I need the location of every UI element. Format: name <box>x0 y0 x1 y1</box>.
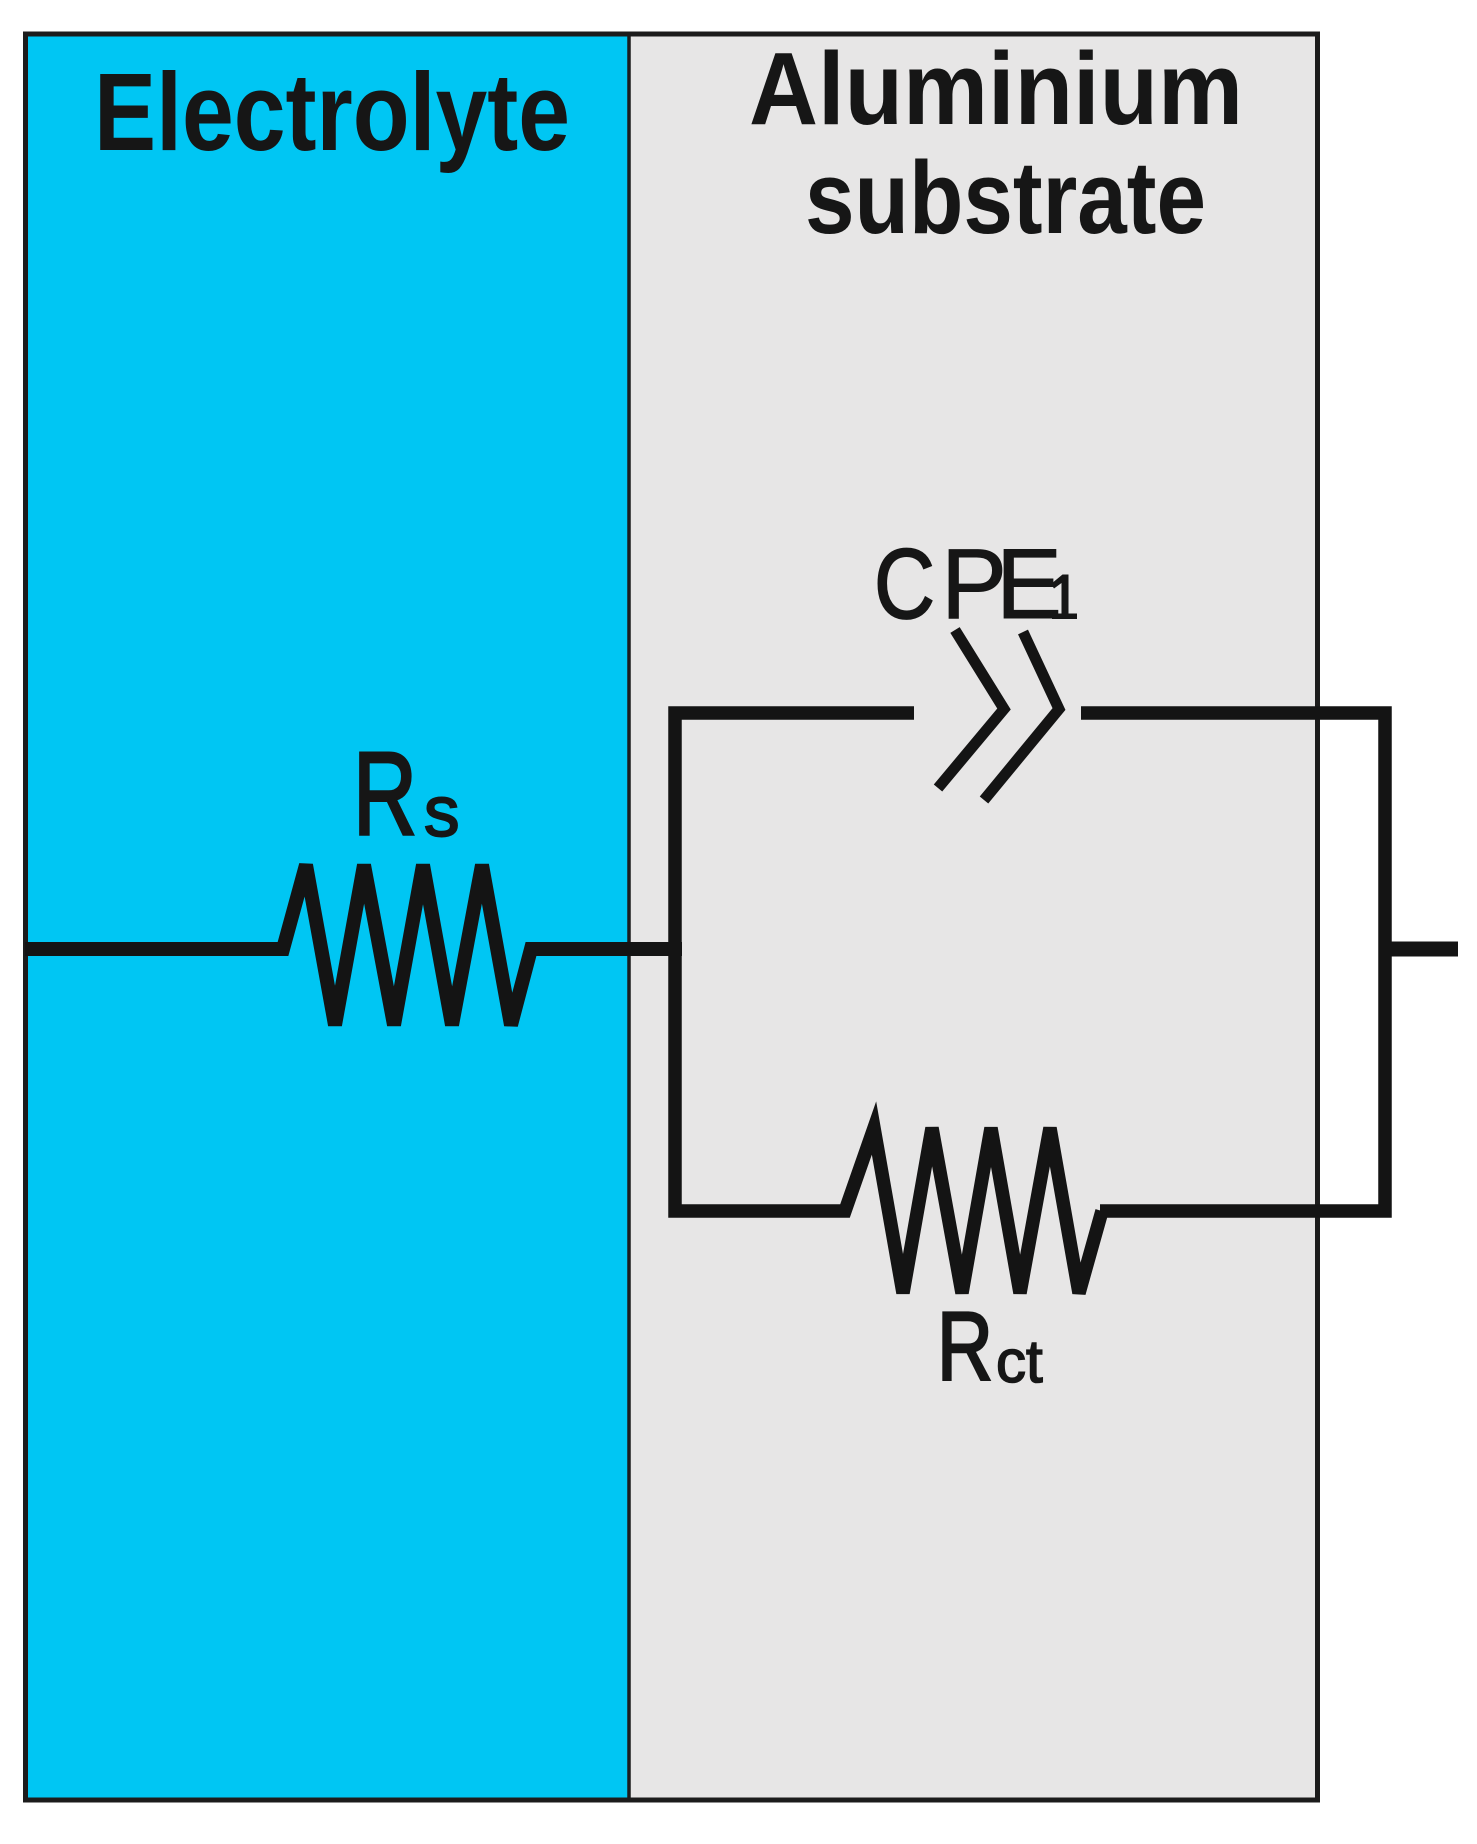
svg-text:Electrolyte: Electrolyte <box>94 51 570 174</box>
svg-text:Aluminium: Aluminium <box>749 31 1243 146</box>
svg-text:ct: ct <box>996 1328 1043 1395</box>
svg-text:R: R <box>937 1292 993 1401</box>
svg-text:substrate: substrate <box>805 140 1206 255</box>
svg-text:R: R <box>353 728 417 860</box>
svg-text:C: C <box>874 528 935 639</box>
svg-text:s: s <box>424 773 460 852</box>
